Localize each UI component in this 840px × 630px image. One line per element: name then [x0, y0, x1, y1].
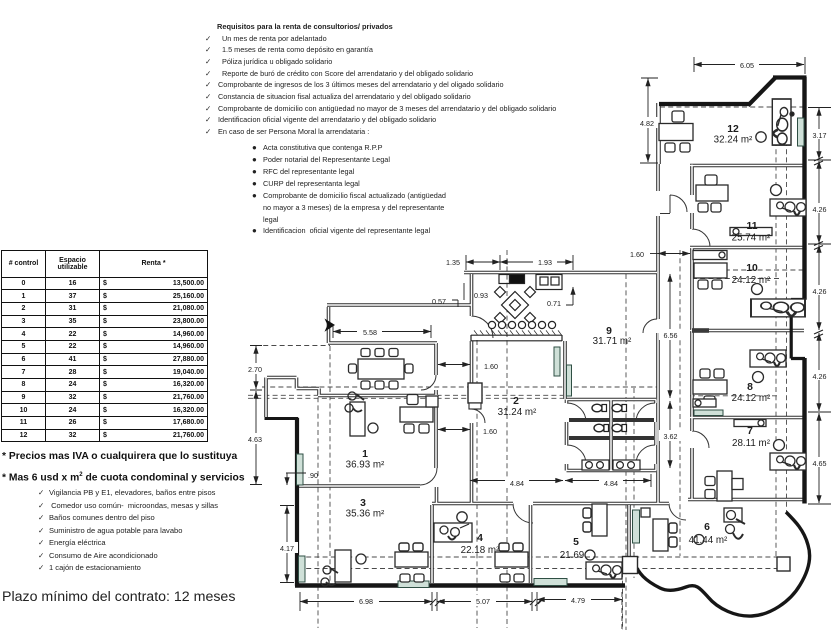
outer wall diagonal	[748, 78, 776, 106]
svg-text:1.60: 1.60	[483, 427, 497, 436]
wall room12 west	[657, 103, 661, 164]
plazo line	[2, 589, 235, 605]
grid h y557	[298, 556, 786, 558]
bar counter	[471, 335, 562, 341]
svg-text:31.71 m²: 31.71 m²	[593, 336, 632, 347]
room7 desk	[717, 471, 732, 501]
room6 exam chair	[724, 508, 742, 522]
room labels	[346, 124, 771, 561]
door room11	[660, 195, 687, 214]
svg-text:3.17: 3.17	[813, 131, 827, 140]
svg-text:5.58: 5.58	[363, 328, 377, 337]
door room7	[692, 431, 709, 448]
svg-text:6: 6	[704, 522, 710, 533]
counter unit	[536, 275, 562, 290]
dim 1.93	[500, 261, 573, 263]
dim 4.79	[537, 599, 622, 601]
dim 4.26c	[818, 333, 820, 411]
svg-text:4: 4	[477, 533, 483, 544]
rooms west wall	[690, 165, 694, 500]
svg-text:10: 10	[746, 263, 758, 274]
svg-text:4.65: 4.65	[813, 459, 827, 468]
dim 4.84b	[565, 480, 651, 482]
bathroom fixtures	[569, 404, 654, 470]
wall corridor south y503	[432, 502, 669, 506]
svg-text:25.74 m²: 25.74 m²	[732, 233, 771, 244]
cabinet room6	[633, 510, 640, 543]
bathroom walls	[567, 400, 657, 471]
bottom rooms furniture	[321, 504, 677, 586]
svg-text:.90: .90	[308, 471, 318, 480]
column lobby left	[623, 557, 638, 574]
wall room3 top	[298, 484, 420, 488]
cabinet room2 east	[554, 347, 560, 376]
dimension labels	[243, 59, 830, 606]
wall rooms7-6	[688, 498, 804, 502]
kitchenette	[471, 275, 562, 342]
wall room2-9 divider	[563, 341, 567, 399]
grid v x318	[317, 389, 319, 628]
dim 4.26b	[818, 245, 820, 330]
cabinet room9 west	[567, 365, 572, 396]
dim 4.65	[818, 413, 820, 503]
dim 6.98	[300, 601, 432, 603]
wall notch left	[266, 378, 319, 418]
dark door panel room8	[692, 328, 709, 333]
dim 3.17	[818, 108, 820, 159]
teal cabinets	[297, 118, 805, 588]
grid v x778	[775, 100, 777, 556]
column room2 wall	[468, 383, 482, 403]
room12 desk	[659, 124, 693, 141]
wall meeting right	[434, 343, 438, 468]
small sq	[499, 275, 510, 284]
dim 0.71 bracket	[566, 287, 573, 305]
door meeting room	[421, 375, 436, 390]
svg-text:41.44 m²: 41.44 m²	[689, 535, 728, 546]
svg-text:35.36 m²: 35.36 m²	[346, 509, 385, 520]
dim 1.60 r2b	[438, 429, 470, 431]
outer wall right lower	[802, 358, 806, 504]
wall rooms8-7	[690, 416, 804, 420]
room8 exam	[750, 350, 786, 367]
svg-text:6.98: 6.98	[359, 597, 373, 606]
svg-text:4.79: 4.79	[571, 596, 585, 605]
svg-text:1.60: 1.60	[630, 250, 644, 259]
svg-text:5.07: 5.07	[476, 597, 490, 606]
bullet sub-list	[252, 142, 446, 237]
room8 desk	[693, 380, 727, 394]
wall room2 left	[470, 341, 474, 503]
svg-text:4.26: 4.26	[813, 287, 827, 296]
grid h right wing	[690, 270, 804, 396]
svg-text:2.70: 2.70	[248, 365, 262, 374]
wall entry stub	[327, 307, 331, 343]
room5-6 desk	[653, 519, 677, 551]
wall kitchen left	[470, 274, 474, 316]
svg-text:6.05: 6.05	[740, 61, 754, 70]
cabinet room3 west	[299, 556, 306, 582]
exterior thick walls	[265, 77, 810, 616]
svg-text:4.26: 4.26	[813, 372, 827, 381]
wall top-left long	[327, 303, 471, 307]
room7 exam	[770, 453, 806, 470]
interior walls (double line)	[266, 103, 804, 583]
door room1-room3	[420, 468, 437, 485]
conference table room1	[349, 349, 414, 390]
dim 3.62	[669, 401, 671, 468]
dim 1.60 corr	[658, 253, 690, 255]
right wing furniture	[659, 99, 806, 545]
svg-text:28.11 m²: 28.11 m²	[732, 438, 771, 449]
dim 5.07	[437, 601, 532, 603]
outer wall left top	[265, 417, 299, 420]
dim 2.70	[255, 346, 257, 389]
svg-text:0.93: 0.93	[474, 291, 488, 300]
grid v x477	[476, 340, 478, 628]
room11 desk	[696, 185, 728, 201]
door room9	[643, 319, 657, 333]
svg-text:0.57: 0.57	[432, 297, 446, 306]
svg-text:36.93 m²: 36.93 m²	[346, 460, 385, 471]
grid v x623	[622, 556, 624, 630]
svg-text:0.71: 0.71	[547, 299, 561, 308]
outer wall curved lobby	[632, 512, 810, 616]
counter hatch	[474, 330, 561, 334]
room1 desks	[345, 392, 438, 436]
svg-text:24.12 m²: 24.12 m²	[732, 393, 771, 404]
svg-text:7: 7	[747, 426, 753, 437]
svg-text:4.84: 4.84	[510, 479, 524, 488]
outer wall top12	[659, 102, 750, 106]
room3 desk2	[395, 543, 428, 567]
svg-text:24.12 m²: 24.12 m²	[732, 275, 771, 286]
bar stools	[488, 321, 555, 328]
svg-text:1: 1	[362, 449, 368, 460]
svg-text:5: 5	[573, 537, 579, 548]
svg-text:1.35: 1.35	[446, 258, 460, 267]
wall room1 divider	[318, 394, 438, 398]
dim 4.17	[286, 506, 288, 582]
outer wall right	[802, 77, 806, 300]
svg-text:6.56: 6.56	[664, 331, 678, 340]
svg-text:32.24 m²: 32.24 m²	[714, 135, 753, 146]
room10 cabinet+desk	[694, 263, 727, 278]
svg-text:4.82: 4.82	[640, 119, 654, 128]
grid v x330	[329, 346, 331, 583]
cafe table X	[502, 292, 529, 319]
door room11b	[692, 229, 710, 247]
grid v x634	[633, 388, 635, 578]
svg-text:8: 8	[747, 382, 753, 393]
wall jamb room3 door	[435, 487, 439, 503]
dim 0.57 bracket	[452, 300, 458, 307]
room10 exam	[751, 299, 805, 317]
wall rooms10-8	[690, 329, 804, 333]
room11 exam	[770, 199, 806, 216]
wall meeting top	[328, 341, 437, 345]
dim .90	[286, 473, 288, 485]
svg-text:4.26: 4.26	[813, 205, 827, 214]
outer wall right jog	[791, 300, 805, 359]
room7 shelf	[734, 420, 766, 427]
grid h y568	[298, 568, 783, 570]
outer wall left	[295, 418, 299, 586]
svg-text:1.60: 1.60	[484, 362, 498, 371]
services list	[38, 487, 218, 575]
cabinet room5 south	[534, 579, 567, 586]
grid h y387	[262, 386, 657, 388]
svg-text:3.62: 3.62	[664, 432, 678, 441]
room4 desk	[495, 543, 528, 567]
entry arrow marker	[325, 319, 336, 332]
grid h y396 pair	[248, 395, 563, 398]
grid v x680	[679, 250, 681, 556]
columns (white boxes)	[468, 383, 790, 574]
wall rooms3-4	[430, 505, 434, 583]
bath doors	[567, 403, 586, 422]
svg-text:4.84: 4.84	[604, 479, 618, 488]
dimension lines	[250, 57, 831, 630]
room12 exam	[772, 99, 791, 145]
room3 desk	[335, 550, 351, 582]
price table	[1, 250, 208, 442]
svg-text:31.24 m²: 31.24 m²	[498, 407, 537, 418]
dim 4.84a	[470, 480, 563, 482]
svg-text:2: 2	[513, 396, 519, 407]
dashed grid lines	[248, 100, 804, 630]
door room6	[669, 504, 686, 521]
outer wall bottom	[295, 583, 625, 588]
tick pairs	[430, 598, 544, 606]
dim 5.58	[333, 331, 431, 333]
grid h y346	[255, 345, 330, 347]
wall rooms11-10	[690, 246, 804, 250]
requisitos list	[205, 21, 556, 138]
svg-text:12: 12	[727, 124, 739, 135]
wall rooms12-11	[690, 164, 804, 168]
grid v x788	[786, 100, 788, 512]
dim 0.93 tick	[463, 283, 465, 300]
dim 1.35	[466, 261, 500, 263]
door arcs	[420, 195, 710, 523]
dim 4.26a	[818, 161, 820, 243]
svg-text:4.63: 4.63	[248, 435, 262, 444]
door corridor-room5	[513, 504, 533, 524]
wall top rooms2-9	[464, 271, 657, 275]
svg-text:21.69: 21.69	[560, 550, 585, 561]
dim 4.63	[255, 391, 257, 484]
svg-text:11: 11	[747, 221, 758, 232]
svg-text:22.18 m²: 22.18 m²	[461, 545, 500, 556]
break marks	[814, 157, 823, 338]
room11 shelf	[730, 228, 772, 236]
cabinet room8	[694, 410, 723, 416]
door room2	[471, 409, 485, 423]
starred notes	[2, 451, 237, 462]
grid v x507	[506, 250, 508, 628]
dim 4.82	[647, 79, 649, 163]
svg-text:3: 3	[360, 498, 366, 509]
dim 6.05	[694, 64, 804, 66]
column lobby right	[777, 557, 790, 571]
cabinet room12	[798, 118, 805, 146]
room4 exam table	[434, 523, 472, 542]
svg-text:4.17: 4.17	[280, 544, 294, 553]
room5 exam	[586, 562, 622, 579]
grid v x626	[625, 274, 627, 630]
stove block	[510, 275, 525, 284]
outer wall top right	[773, 75, 807, 79]
cabinet room3 south	[398, 581, 429, 588]
door kitchenette	[472, 316, 494, 338]
svg-text:1.93: 1.93	[538, 258, 552, 267]
dim 1.60 r2a	[438, 364, 470, 366]
wall rooms4-5	[529, 505, 533, 583]
dim 6.56	[669, 274, 671, 398]
wall rooms5-6	[627, 505, 631, 556]
grid h y107	[660, 106, 803, 108]
cabinet room1 wall	[297, 454, 304, 485]
corridor west wall	[656, 103, 660, 503]
room5 desk	[583, 504, 607, 536]
